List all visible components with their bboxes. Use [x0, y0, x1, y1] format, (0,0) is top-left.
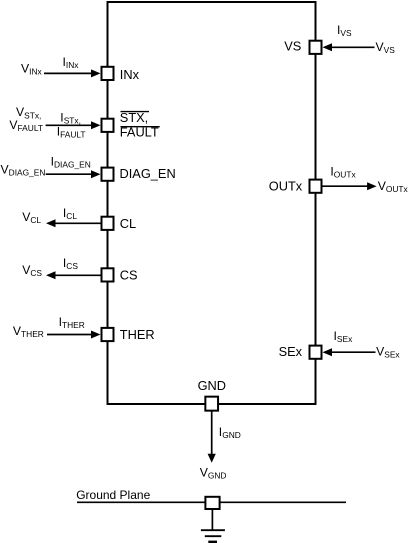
wire: INx input arrow [44, 69, 101, 77]
svg-text:FAULT: FAULT [120, 125, 159, 140]
label ISTx [60, 110, 81, 125]
wire: SEx input arrow [323, 348, 376, 356]
label ICS [63, 256, 78, 271]
svg-text:DIAG_EN: DIAG_EN [120, 166, 176, 181]
wire: ground stem [211, 510, 213, 530]
label VGND [200, 466, 227, 481]
label ISEx [334, 329, 354, 344]
pin INx [102, 67, 140, 82]
node ground plane connection box [205, 497, 219, 509]
label VDIAG_EN [1, 163, 46, 178]
label VVS [376, 40, 396, 55]
wire: THER input arrow [47, 331, 101, 339]
wire: STx/FAULT input arrow [46, 121, 101, 129]
label IINx [63, 55, 80, 70]
svg-text:OUTx: OUTx [269, 178, 303, 193]
wire: CL output arrow [46, 219, 101, 227]
svg-text:SEx: SEx [279, 344, 303, 359]
svg-text:GND: GND [198, 378, 226, 393]
pin CS [102, 268, 138, 283]
pin THER [102, 327, 155, 342]
label VSEx [376, 345, 400, 360]
pin STX/FAULT [102, 110, 160, 140]
svg-text:Ground Plane: Ground Plane [76, 488, 150, 502]
svg-text:VS: VS [284, 39, 301, 54]
pin CL [102, 216, 137, 231]
pin OUTx [269, 178, 322, 193]
label VCL [22, 210, 41, 225]
label VCS [22, 263, 42, 278]
label IFAULT [57, 124, 86, 139]
svg-text:THER: THER [120, 327, 155, 342]
pin SEx [279, 344, 322, 359]
label IDIAG_EN [51, 154, 91, 169]
svg-text:STX,: STX, [120, 110, 148, 125]
svg-text:CS: CS [120, 268, 138, 283]
wire: ground plane line [77, 501, 346, 503]
label IVS [337, 23, 352, 38]
pin GND [198, 378, 226, 411]
wire: VS input arrow [323, 43, 375, 51]
label VSTx [16, 105, 41, 120]
pin VS [284, 39, 321, 54]
label VINx [21, 62, 43, 77]
wire: OUTx output arrow [323, 182, 377, 190]
wire: GND down arrow [208, 412, 216, 463]
svg-text:CL: CL [120, 216, 136, 231]
label ICL [63, 206, 77, 221]
label VFAULT [9, 118, 43, 133]
svg-text:INx: INx [120, 67, 140, 82]
label Ground Plane [76, 488, 150, 502]
label IGND [219, 425, 241, 440]
label IOUTx [330, 165, 356, 180]
label ITHER [59, 315, 85, 330]
label VTHER [13, 324, 44, 339]
IC body U1 [108, 2, 316, 404]
ground [201, 530, 225, 542]
wire: CS output arrow [46, 271, 101, 279]
label VOUTx [378, 179, 409, 194]
pin DIAG_EN [102, 166, 176, 181]
wire: DIAG_EN input arrow [46, 170, 101, 178]
